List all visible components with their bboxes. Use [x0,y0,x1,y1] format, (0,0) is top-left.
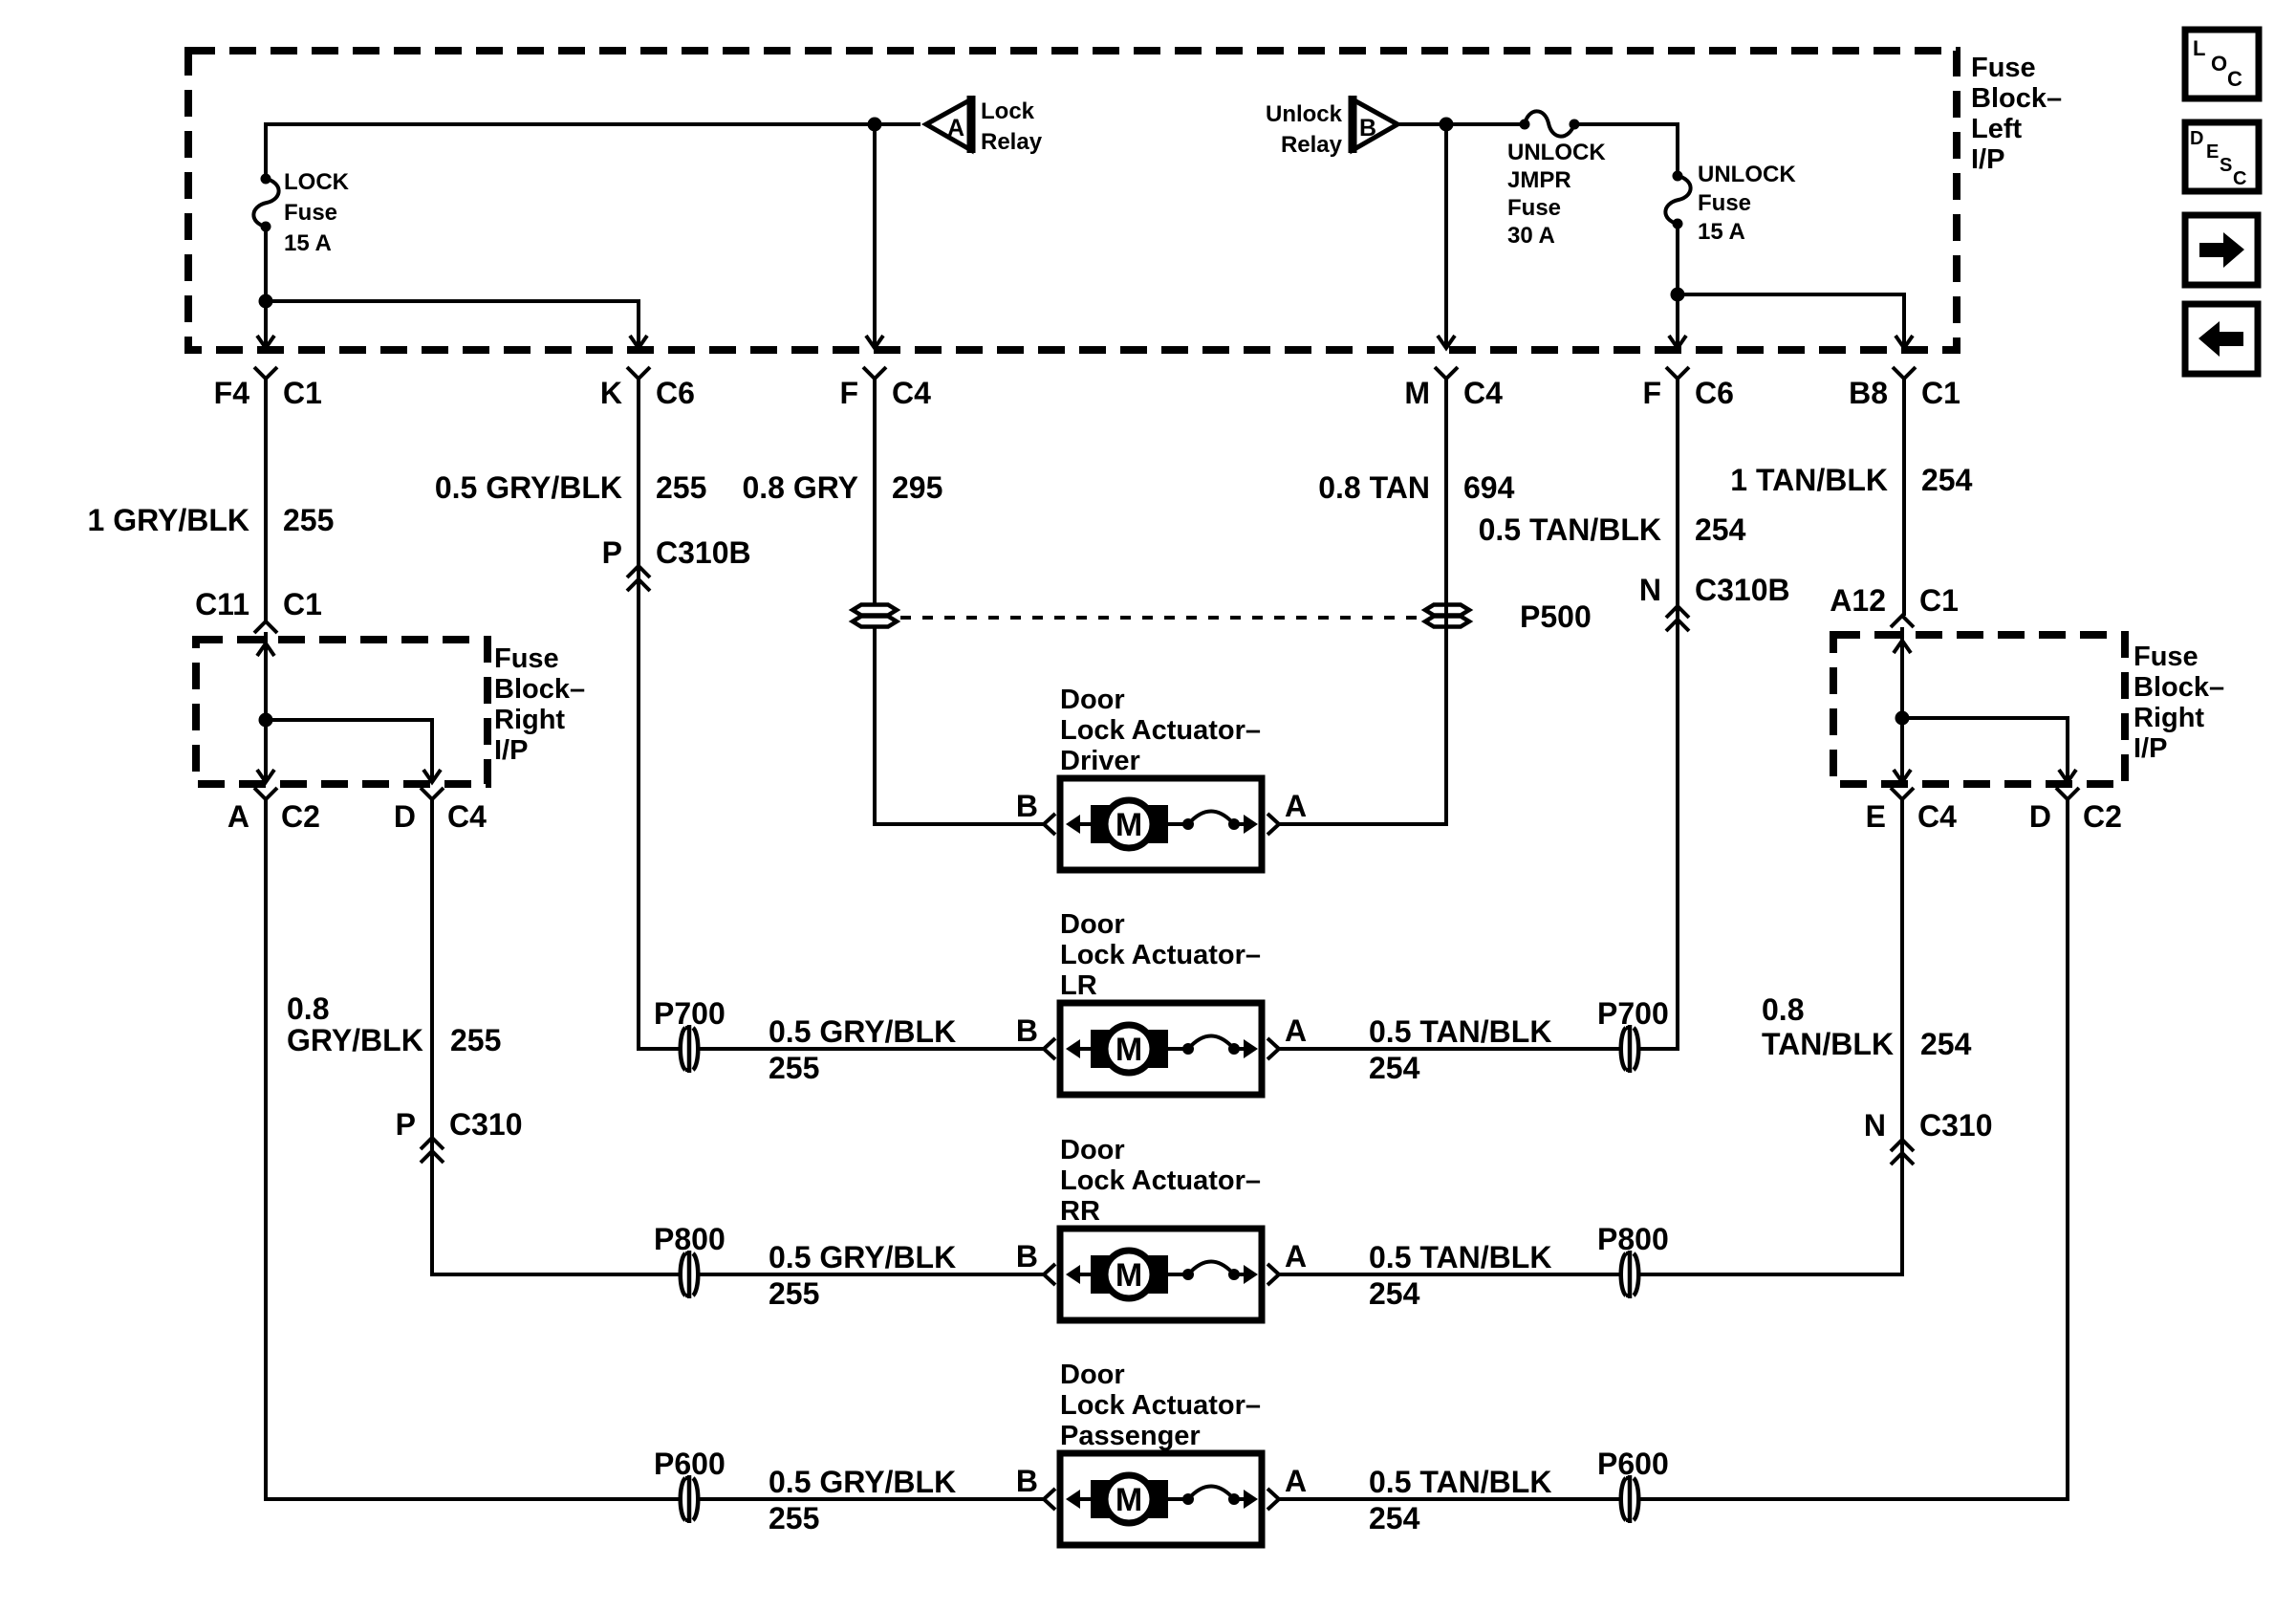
svg-text:C1: C1 [1919,583,1959,618]
svg-text:A: A [227,799,249,834]
connector B8 C1 [1849,367,1960,410]
svg-text:Fuse: Fuse [1698,190,1751,216]
svg-text:30 A: 30 A [1507,223,1555,249]
svg-text:C11: C11 [195,587,249,621]
label 1 TAN/BLK 254 [1730,463,1972,497]
svg-text:A12: A12 [1830,583,1886,618]
label 0.5 TAN/BLK 254 [1479,512,1746,547]
svg-text:0.5 TAN/BLK: 0.5 TAN/BLK [1369,1240,1551,1274]
svg-text:Fuse: Fuse [1971,53,2036,83]
svg-text:Driver: Driver [1060,746,1140,776]
door lock actuator - Driver [1060,778,1262,870]
svg-text:C1: C1 [283,376,322,410]
svg-text:A: A [1285,789,1307,823]
svg-text:C: C [2227,67,2242,91]
pin A of Passenger actuator [1267,1464,1307,1510]
pin B of Passenger actuator [1016,1464,1055,1510]
svg-text:0.5 TAN/BLK: 0.5 TAN/BLK [1369,1465,1551,1499]
svg-text:E: E [2206,142,2219,163]
label 0.8 TAN/BLK 254 [1762,992,1972,1061]
connector N C310 [1864,1108,1993,1165]
svg-text:C6: C6 [656,376,695,410]
svg-text:P: P [602,535,622,570]
pin A of Driver actuator [1267,789,1307,835]
DESC button box [2185,122,2259,191]
svg-text:A: A [1285,1239,1307,1274]
connector C11 C1 [195,587,322,633]
label Door Lock Actuator-LR [1060,909,1261,1001]
svg-text:C310B: C310B [656,535,751,570]
svg-text:Left: Left [1971,114,2023,144]
grommet P800 right [1619,1251,1640,1298]
wire: branch to K C6 [266,301,647,348]
svg-text:C2: C2 [2083,799,2122,834]
svg-text:15 A: 15 A [1698,219,1745,245]
label 0.5 GRY/BLK 255 (Passenger row) [769,1465,956,1535]
svg-text:Block–: Block– [2134,672,2224,703]
svg-text:254: 254 [1369,1051,1420,1085]
door lock actuator - RR [1060,1229,1262,1320]
junction node UNLOCK fuse output [1671,288,1685,302]
connector M C4 [1404,367,1503,410]
label Door Lock Actuator-Driver [1060,685,1261,776]
svg-text:LOCK: LOCK [284,169,350,195]
label 0.5 GRY/BLK 255 (LR row) [769,1014,956,1085]
svg-text:Lock Actuator–: Lock Actuator– [1060,940,1261,970]
svg-text:F: F [1642,376,1661,410]
grommet P800 left [679,1251,700,1298]
svg-text:B: B [1016,1239,1038,1274]
svg-text:I/P: I/P [494,735,528,766]
svg-text:Lock Actuator–: Lock Actuator– [1060,715,1261,746]
svg-text:255: 255 [283,503,334,537]
svg-text:UNLOCK: UNLOCK [1698,162,1796,187]
svg-text:L: L [2193,36,2205,60]
grommet P500 right [1425,605,1469,627]
svg-text:Relay: Relay [981,129,1043,155]
svg-text:694: 694 [1463,470,1515,505]
svg-text:M: M [1116,1482,1142,1518]
label Lock Relay [981,98,1043,155]
svg-text:A: A [1285,1013,1307,1048]
junction node in right fuse block [1895,711,1910,726]
wire: unlock relay output [1397,122,1525,126]
svg-text:0.8: 0.8 [1762,992,1804,1027]
svg-text:254: 254 [1369,1276,1420,1311]
wire branch to D C4 [266,720,441,782]
svg-text:255: 255 [450,1023,501,1057]
svg-text:M: M [1116,1032,1142,1068]
svg-text:0.8 GRY: 0.8 GRY [742,470,858,505]
wire B8 C1 down to A12 C1 [1902,379,1906,616]
grommet P700 left [679,1025,700,1073]
svg-text:O: O [2211,52,2227,76]
wire: feed from LOCK fuse up and right to Lock Relay [266,124,921,182]
svg-text:Fuse: Fuse [494,643,559,674]
svg-text:B: B [1016,789,1038,823]
svg-text:254: 254 [1369,1501,1420,1535]
svg-text:B8: B8 [1849,376,1888,410]
label Door Lock Actuator-Passenger [1060,1360,1261,1451]
svg-text:P600: P600 [1597,1447,1669,1481]
label 0.5 TAN/BLK 254 (Passenger row) [1369,1465,1551,1535]
svg-text:P800: P800 [1597,1222,1669,1256]
wire branch to D C2 [1902,718,2076,782]
svg-text:255: 255 [656,470,706,505]
svg-text:F: F [839,376,858,410]
label Fuse Block-Right I/P (right) [2134,642,2224,764]
svg-text:0.5 GRY/BLK: 0.5 GRY/BLK [769,1240,956,1274]
svg-text:255: 255 [769,1501,819,1535]
svg-text:P500: P500 [1520,599,1592,634]
svg-text:C4: C4 [447,799,487,834]
svg-text:D: D [394,799,416,834]
label Fuse Block-Left I/P [1971,53,2062,175]
svg-text:C1: C1 [283,587,322,621]
svg-text:15 A: 15 A [284,230,332,256]
svg-text:Fuse: Fuse [1507,195,1561,221]
svg-text:C4: C4 [1917,799,1957,834]
svg-text:E: E [1866,799,1886,834]
wire F C4 down through P500 to driver B [875,379,1044,824]
svg-text:UNLOCK: UNLOCK [1507,140,1606,165]
svg-text:C310: C310 [449,1107,523,1142]
dashed wire between P500 grommets [900,616,1422,620]
fuse block - right I/P left (dashed box) [196,640,487,784]
connector A C2 [227,788,320,834]
svg-text:M: M [1404,376,1430,410]
wire F C6 down to LR row A side [1279,379,1678,1049]
svg-text:C: C [2233,168,2246,189]
svg-text:I/P: I/P [1971,144,2004,175]
pin A of LR actuator [1267,1013,1307,1059]
wire: LOCK fuse output down to F4 C1 [257,227,274,348]
svg-text:LR: LR [1060,970,1097,1001]
connector E C4 [1866,788,1957,834]
connector F4 C1 [214,367,322,410]
wire: drop to M C4 [1438,124,1455,348]
pin B of LR actuator [1016,1013,1055,1059]
svg-text:Fuse: Fuse [2134,642,2199,672]
svg-text:D: D [2029,799,2051,834]
svg-text:255: 255 [769,1276,819,1311]
grommet P600 right [1619,1475,1640,1523]
svg-text:A: A [1285,1464,1307,1498]
svg-text:N: N [1639,573,1661,607]
svg-text:P700: P700 [1597,996,1669,1031]
label Fuse Block-Right I/P (left) [494,643,585,766]
svg-text:295: 295 [892,470,942,505]
svg-text:GRY/BLK: GRY/BLK [287,1023,423,1057]
svg-text:K: K [600,376,622,410]
door lock actuator - LR [1060,1003,1262,1095]
svg-text:M: M [1116,807,1142,843]
svg-text:D: D [2190,128,2203,149]
pin B of Driver actuator [1016,789,1055,835]
grommet P700 right [1619,1025,1640,1073]
svg-text:0.5 GRY/BLK: 0.5 GRY/BLK [435,470,622,505]
lock relay contact A [926,96,971,153]
svg-text:Right: Right [494,705,565,735]
svg-text:0.5 GRY/BLK: 0.5 GRY/BLK [769,1465,956,1499]
wire D C2 down to passenger row A [1279,799,2068,1499]
svg-text:254: 254 [1695,512,1746,547]
svg-text:C4: C4 [892,376,931,410]
wire D C4 down to RR row [432,799,1044,1274]
unlock relay contact B [1353,96,1397,153]
svg-text:M: M [1116,1257,1142,1294]
svg-text:Door: Door [1060,1360,1125,1390]
fuse LOCK 15 A [253,174,278,232]
svg-text:255: 255 [769,1051,819,1085]
svg-text:B: B [1016,1464,1038,1498]
fuse UNLOCK 15 A [1665,171,1690,229]
door lock actuator - Passenger [1060,1453,1262,1545]
wire F4 C1 down to C11 C1 [264,379,268,621]
label 0.8 GRY 295 [742,470,942,505]
wire through left fuse block [257,632,274,782]
svg-text:N: N [1864,1108,1886,1143]
svg-text:C2: C2 [281,799,320,834]
svg-text:B: B [1016,1013,1038,1048]
fuse block - left I/P (dashed box) [188,51,1957,350]
svg-text:Lock Actuator–: Lock Actuator– [1060,1165,1261,1196]
wire: UNLOCK fuse output to F C6 [1669,224,1686,348]
pin B of RR actuator [1016,1239,1055,1285]
wire M C4 down through P500 to driver A [1279,379,1446,824]
svg-text:C6: C6 [1695,376,1734,410]
connector F C4 [839,367,931,410]
svg-text:Relay: Relay [1281,132,1343,158]
wire A C2 down to passenger row [266,799,1044,1499]
svg-text:Lock Actuator–: Lock Actuator– [1060,1390,1261,1421]
svg-text:254: 254 [1921,463,1973,497]
svg-text:0.5 GRY/BLK: 0.5 GRY/BLK [769,1014,956,1049]
svg-text:RR: RR [1060,1196,1100,1227]
connector K C6 [600,367,695,410]
connector P C310B [602,535,751,591]
svg-text:C310: C310 [1919,1108,1993,1143]
svg-text:C310B: C310B [1695,573,1790,607]
label 0.8 TAN 694 [1318,470,1514,505]
label 0.5 TAN/BLK 254 (RR row) [1369,1240,1551,1311]
junction node in left fuse block [259,713,273,728]
wire K C6 down to LR row [639,379,1044,1049]
wire: drop to F C4 [866,124,883,348]
connector D C2 [2029,788,2122,834]
svg-text:0.8: 0.8 [287,991,329,1026]
label 0.5 TAN/BLK 254 (LR row) [1369,1014,1551,1085]
label UNLOCK Fuse 15 A [1698,162,1796,245]
svg-text:Block–: Block– [494,674,585,705]
label 1 GRY/BLK 255 [88,503,335,537]
fuse UNLOCK JMPR 30 A [1520,111,1580,136]
svg-text:Door: Door [1060,909,1125,940]
grommet P500 left [853,605,897,627]
svg-text:Unlock: Unlock [1266,101,1343,127]
label 0.5 GRY/BLK 255 [435,470,707,505]
svg-text:1 GRY/BLK: 1 GRY/BLK [88,503,250,537]
connector P C310 [396,1107,523,1163]
svg-text:TAN/BLK: TAN/BLK [1762,1027,1894,1061]
label 0.8 GRY/BLK 255 [287,991,501,1057]
label LOCK Fuse 15 A [284,169,350,256]
svg-text:P: P [396,1107,416,1142]
label 0.5 GRY/BLK 255 (RR row) [769,1240,956,1311]
svg-text:Door: Door [1060,685,1125,715]
svg-text:A: A [947,115,964,142]
svg-text:Lock: Lock [981,98,1035,124]
svg-text:P800: P800 [654,1222,726,1256]
connector A12 C1 [1830,583,1959,627]
junction node LOCK fuse output [259,294,273,309]
LOC button box [2185,30,2259,98]
next-page arrow box [2185,215,2258,285]
connector D C4 [394,788,487,834]
svg-text:Right: Right [2134,703,2204,733]
fuse block - right I/P right (dashed box) [1833,635,2125,784]
svg-text:Fuse: Fuse [284,200,337,226]
svg-text:JMPR: JMPR [1507,167,1571,193]
grommet P600 left [679,1475,700,1523]
label UNLOCK JMPR Fuse 30 A [1507,140,1606,249]
junction node at lock relay branch [868,118,882,132]
svg-text:B: B [1359,115,1376,142]
connector F C6 [1642,367,1733,410]
svg-text:C4: C4 [1463,376,1503,410]
svg-text:I/P: I/P [2134,733,2167,764]
wire E C4 down to RR row A [1279,799,1902,1274]
wire: JMPR fuse to UNLOCK fuse [1574,124,1678,176]
wire through right fuse block [1894,627,1911,782]
svg-text:0.5 TAN/BLK: 0.5 TAN/BLK [1369,1014,1551,1049]
svg-text:C1: C1 [1921,376,1960,410]
svg-text:1 TAN/BLK: 1 TAN/BLK [1730,463,1888,497]
svg-text:0.5 TAN/BLK: 0.5 TAN/BLK [1479,512,1661,547]
svg-text:P700: P700 [654,996,726,1031]
wire: branch to B8 C1 [1678,294,1913,348]
pin A of RR actuator [1267,1239,1307,1285]
svg-text:P600: P600 [654,1447,726,1481]
label Unlock Relay [1266,101,1343,158]
svg-text:254: 254 [1920,1027,1972,1061]
svg-text:Passenger: Passenger [1060,1421,1201,1451]
connector N C310B [1639,573,1790,631]
previous-page arrow box [2185,304,2258,374]
label Door Lock Actuator-RR [1060,1135,1261,1227]
svg-text:Block–: Block– [1971,83,2062,114]
svg-text:F4: F4 [214,376,250,410]
svg-text:S: S [2220,155,2232,176]
svg-text:0.8 TAN: 0.8 TAN [1318,470,1430,505]
junction node at M C4 branch [1440,118,1454,132]
svg-text:Door: Door [1060,1135,1125,1165]
